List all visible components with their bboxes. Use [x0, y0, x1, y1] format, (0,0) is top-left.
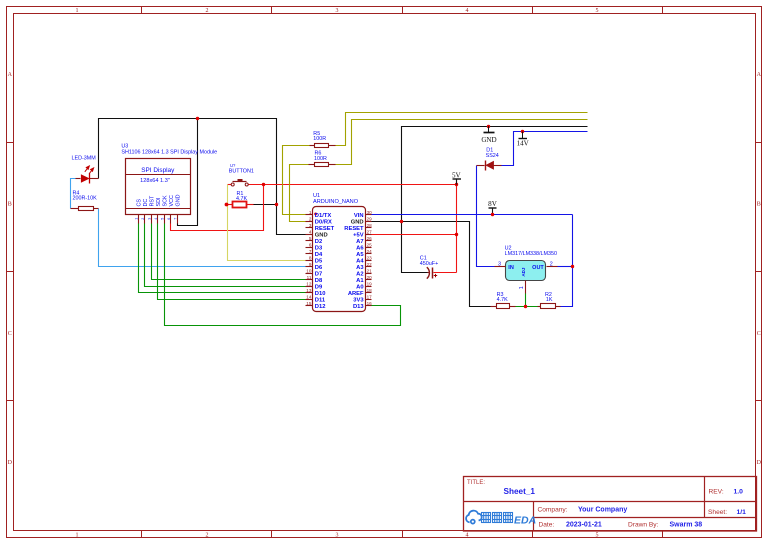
svg-text:2: 2 [141, 218, 145, 220]
wire [336, 113, 588, 146]
resistor R1 [227, 191, 254, 208]
svg-text:6: 6 [309, 242, 312, 247]
wire [99, 209, 306, 267]
wire [336, 120, 588, 165]
wire [372, 234, 457, 236]
svg-text:TITLE:: TITLE: [467, 480, 485, 486]
svg-text:2023-01-21: 2023-01-21 [566, 522, 602, 529]
wire [525, 294, 527, 307]
svg-text:1.0: 1.0 [734, 488, 744, 495]
wire [254, 204, 277, 206]
power flag 8V [488, 200, 498, 216]
svg-text:2: 2 [206, 533, 209, 539]
svg-text:4: 4 [466, 533, 469, 539]
svg-text:U1: U1 [313, 193, 320, 199]
svg-text:D8: D8 [315, 278, 323, 284]
svg-text:D4: D4 [315, 252, 323, 258]
svg-text:LM317/LM338/LM350: LM317/LM338/LM350 [505, 251, 557, 257]
wire [228, 185, 306, 261]
svg-text:D9: D9 [315, 285, 323, 291]
svg-text:U?: U? [230, 163, 236, 168]
wire [434, 272, 457, 274]
wire [502, 132, 588, 166]
svg-text:D3: D3 [315, 245, 323, 251]
wire [228, 184, 232, 186]
svg-text:28: 28 [367, 223, 373, 228]
display module U3 SH1106 [121, 144, 217, 215]
svg-text:24: 24 [367, 249, 373, 254]
resistor R6 [309, 151, 336, 167]
svg-text:BUTTON1: BUTTON1 [229, 169, 254, 175]
resistor R3 [491, 292, 516, 309]
svg-text:18: 18 [367, 288, 373, 293]
svg-text:D10: D10 [315, 291, 326, 297]
svg-text:B: B [757, 202, 761, 208]
svg-text:Sheet_1: Sheet_1 [504, 487, 536, 496]
svg-text:11: 11 [307, 275, 312, 280]
svg-text:27: 27 [367, 229, 373, 234]
svg-text:VIN: VIN [354, 213, 364, 219]
U1 pin stubs [306, 215, 372, 306]
svg-text:GND: GND [481, 136, 496, 144]
wire [178, 119, 198, 226]
wire [558, 266, 573, 268]
capacitor C1 [420, 255, 438, 278]
svg-text:D2: D2 [315, 239, 322, 245]
junction [455, 233, 458, 236]
svg-text:5: 5 [596, 8, 599, 14]
svg-text:3: 3 [336, 533, 339, 539]
svg-text:14V: 14V [517, 140, 530, 148]
svg-text:A: A [757, 72, 762, 78]
wire [171, 185, 264, 231]
svg-text:SDI: SDI [156, 198, 162, 207]
resistor R5 [310, 131, 336, 148]
svg-text:A7: A7 [356, 239, 363, 245]
svg-text:26: 26 [367, 236, 373, 241]
regulator U2 LM317 [495, 246, 558, 294]
svg-text:3: 3 [336, 8, 339, 14]
svg-text:SH1106 128x64 1.3 SPI Display: SH1106 128x64 1.3 SPI Display Module [121, 150, 217, 156]
wire [402, 127, 588, 273]
svg-text:12: 12 [306, 282, 312, 287]
svg-text:A2: A2 [356, 272, 363, 278]
svg-text:RST: RST [150, 195, 156, 206]
svg-text:128x64 1.3": 128x64 1.3" [140, 178, 170, 184]
resistor R2 [538, 292, 561, 309]
diode D1 SS24 [477, 147, 502, 170]
wire [249, 184, 457, 186]
power flag 5V [452, 171, 462, 184]
wire [477, 166, 495, 267]
svg-text:100R: 100R [314, 156, 327, 162]
svg-text:A6: A6 [356, 245, 364, 251]
svg-text:450uF+: 450uF+ [420, 261, 438, 267]
svg-text:30: 30 [367, 210, 373, 215]
svg-text:DC: DC [143, 199, 149, 207]
svg-text:+5V: +5V [353, 232, 364, 238]
U1 pin numbers [306, 210, 372, 306]
svg-text:VCC: VCC [169, 195, 175, 206]
U1 right pin names [344, 213, 364, 310]
svg-text:5: 5 [309, 236, 312, 241]
svg-text:C: C [8, 331, 12, 337]
wire [372, 214, 573, 216]
svg-text:23: 23 [367, 255, 373, 260]
svg-text:Date:: Date: [539, 522, 555, 529]
svg-text:LED-3MM: LED-3MM [72, 156, 97, 162]
svg-text:17: 17 [367, 295, 373, 300]
svg-text:19: 19 [367, 282, 373, 287]
svg-text:CS: CS [137, 199, 143, 207]
svg-text:Your Company: Your Company [578, 507, 627, 514]
svg-text:Sheet:: Sheet: [708, 509, 727, 516]
svg-text:D7: D7 [315, 272, 322, 278]
U3 pin names [137, 194, 182, 206]
mcu U1 ARDUINO_NANO [313, 193, 366, 312]
svg-text:C: C [757, 331, 761, 337]
svg-text:13: 13 [306, 288, 312, 293]
svg-text:D: D [8, 460, 13, 466]
svg-text:1: 1 [519, 286, 525, 289]
U1 left pin names [315, 213, 335, 310]
svg-text:1: 1 [76, 533, 79, 539]
ground GND [481, 125, 496, 144]
svg-text:9: 9 [309, 262, 312, 267]
wire [99, 119, 306, 235]
svg-text:IN: IN [508, 265, 514, 271]
svg-text:20: 20 [367, 275, 373, 280]
svg-text:OUT: OUT [532, 265, 544, 271]
junction [571, 265, 574, 268]
svg-text:8: 8 [309, 255, 312, 260]
svg-text:7: 7 [174, 218, 178, 220]
svg-text:4: 4 [154, 218, 158, 220]
junction [455, 183, 458, 186]
svg-text:1: 1 [309, 210, 312, 215]
svg-text:A1: A1 [356, 278, 364, 284]
svg-text:Drawn By:: Drawn By: [628, 522, 659, 529]
svg-text:15: 15 [306, 301, 312, 306]
svg-text:8V: 8V [488, 200, 498, 208]
svg-text:5V: 5V [452, 171, 462, 179]
junction [400, 220, 403, 223]
wire [456, 179, 458, 273]
svg-text:ARDUINO_NANO: ARDUINO_NANO [313, 199, 359, 205]
wire [158, 224, 306, 300]
svg-text:ADJ: ADJ [521, 267, 526, 276]
wire [71, 179, 76, 209]
svg-text:RESET: RESET [344, 226, 364, 232]
svg-text:D0/RX: D0/RX [315, 219, 332, 225]
svg-text:4.7K: 4.7K [497, 297, 508, 303]
svg-text:1K: 1K [546, 297, 553, 303]
svg-text:Swarm 38: Swarm 38 [670, 522, 703, 529]
resistor R4 [71, 190, 99, 210]
wire [152, 224, 306, 280]
logo EasyEDA [466, 511, 536, 527]
wire [372, 222, 491, 307]
svg-text:D12: D12 [315, 304, 326, 310]
svg-text:16: 16 [367, 301, 373, 306]
svg-text:EDA: EDA [514, 514, 536, 526]
svg-text:A4: A4 [356, 258, 364, 264]
svg-text:D1/TX: D1/TX [315, 213, 332, 219]
LED LED-3MM [72, 156, 99, 184]
wire [165, 224, 401, 326]
svg-text:2: 2 [206, 8, 209, 14]
svg-text:6: 6 [167, 218, 171, 220]
svg-text:REV:: REV: [709, 488, 724, 495]
svg-text:D5: D5 [315, 258, 323, 264]
wire [139, 224, 306, 293]
svg-text:SS24: SS24 [486, 153, 499, 159]
junction [196, 117, 199, 120]
svg-text:21: 21 [367, 269, 373, 274]
svg-text:A0: A0 [356, 285, 363, 291]
svg-text:100R: 100R [313, 136, 326, 142]
svg-text:4: 4 [309, 229, 312, 234]
svg-text:A3: A3 [356, 265, 364, 271]
power flag 14V [517, 132, 530, 148]
junction [521, 130, 524, 133]
svg-text:7: 7 [309, 249, 312, 254]
svg-text:RESET: RESET [315, 226, 335, 232]
junction [275, 203, 278, 206]
wire [561, 215, 573, 307]
wire [516, 306, 538, 308]
svg-text:200R-10K: 200R-10K [73, 196, 98, 202]
svg-text:SCK: SCK [163, 195, 169, 206]
svg-text:D6: D6 [315, 265, 323, 271]
svg-text:1: 1 [76, 8, 79, 14]
svg-text:3: 3 [309, 223, 312, 228]
svg-text:GND: GND [315, 232, 328, 238]
title block [464, 477, 757, 532]
svg-text:2: 2 [309, 216, 312, 221]
svg-text:3: 3 [498, 262, 501, 268]
svg-text:1: 1 [134, 218, 138, 220]
svg-text:22: 22 [367, 262, 373, 267]
svg-text:1/1: 1/1 [737, 509, 747, 516]
svg-text:5: 5 [161, 218, 165, 220]
junction [225, 203, 229, 207]
U3 pin stubs and pin numbers [134, 215, 177, 224]
svg-text:GND: GND [176, 194, 182, 206]
svg-text:B: B [8, 202, 12, 208]
svg-text:4: 4 [466, 8, 469, 14]
wire [145, 224, 306, 287]
svg-text:29: 29 [367, 216, 373, 221]
svg-text:A: A [8, 72, 13, 78]
svg-text:SPI Display: SPI Display [141, 167, 175, 174]
svg-text:D11: D11 [315, 298, 326, 304]
svg-text:GND: GND [351, 219, 364, 225]
svg-text:3: 3 [148, 218, 152, 220]
svg-text:5: 5 [596, 533, 599, 539]
svg-text:D13: D13 [353, 304, 364, 310]
svg-text:3V3: 3V3 [353, 298, 364, 304]
junction [524, 305, 527, 308]
svg-text:Company:: Company: [538, 507, 568, 514]
pushbutton BUTTON1 [229, 163, 254, 186]
svg-text:25: 25 [367, 242, 373, 247]
svg-text:10: 10 [306, 269, 312, 274]
svg-text:AREF: AREF [348, 291, 364, 297]
wire [290, 165, 309, 222]
svg-text:14: 14 [306, 295, 312, 300]
svg-text:D: D [757, 460, 762, 466]
svg-text:2: 2 [550, 262, 553, 268]
wire [283, 146, 310, 215]
svg-text:A5: A5 [356, 252, 364, 258]
junction [262, 183, 265, 186]
